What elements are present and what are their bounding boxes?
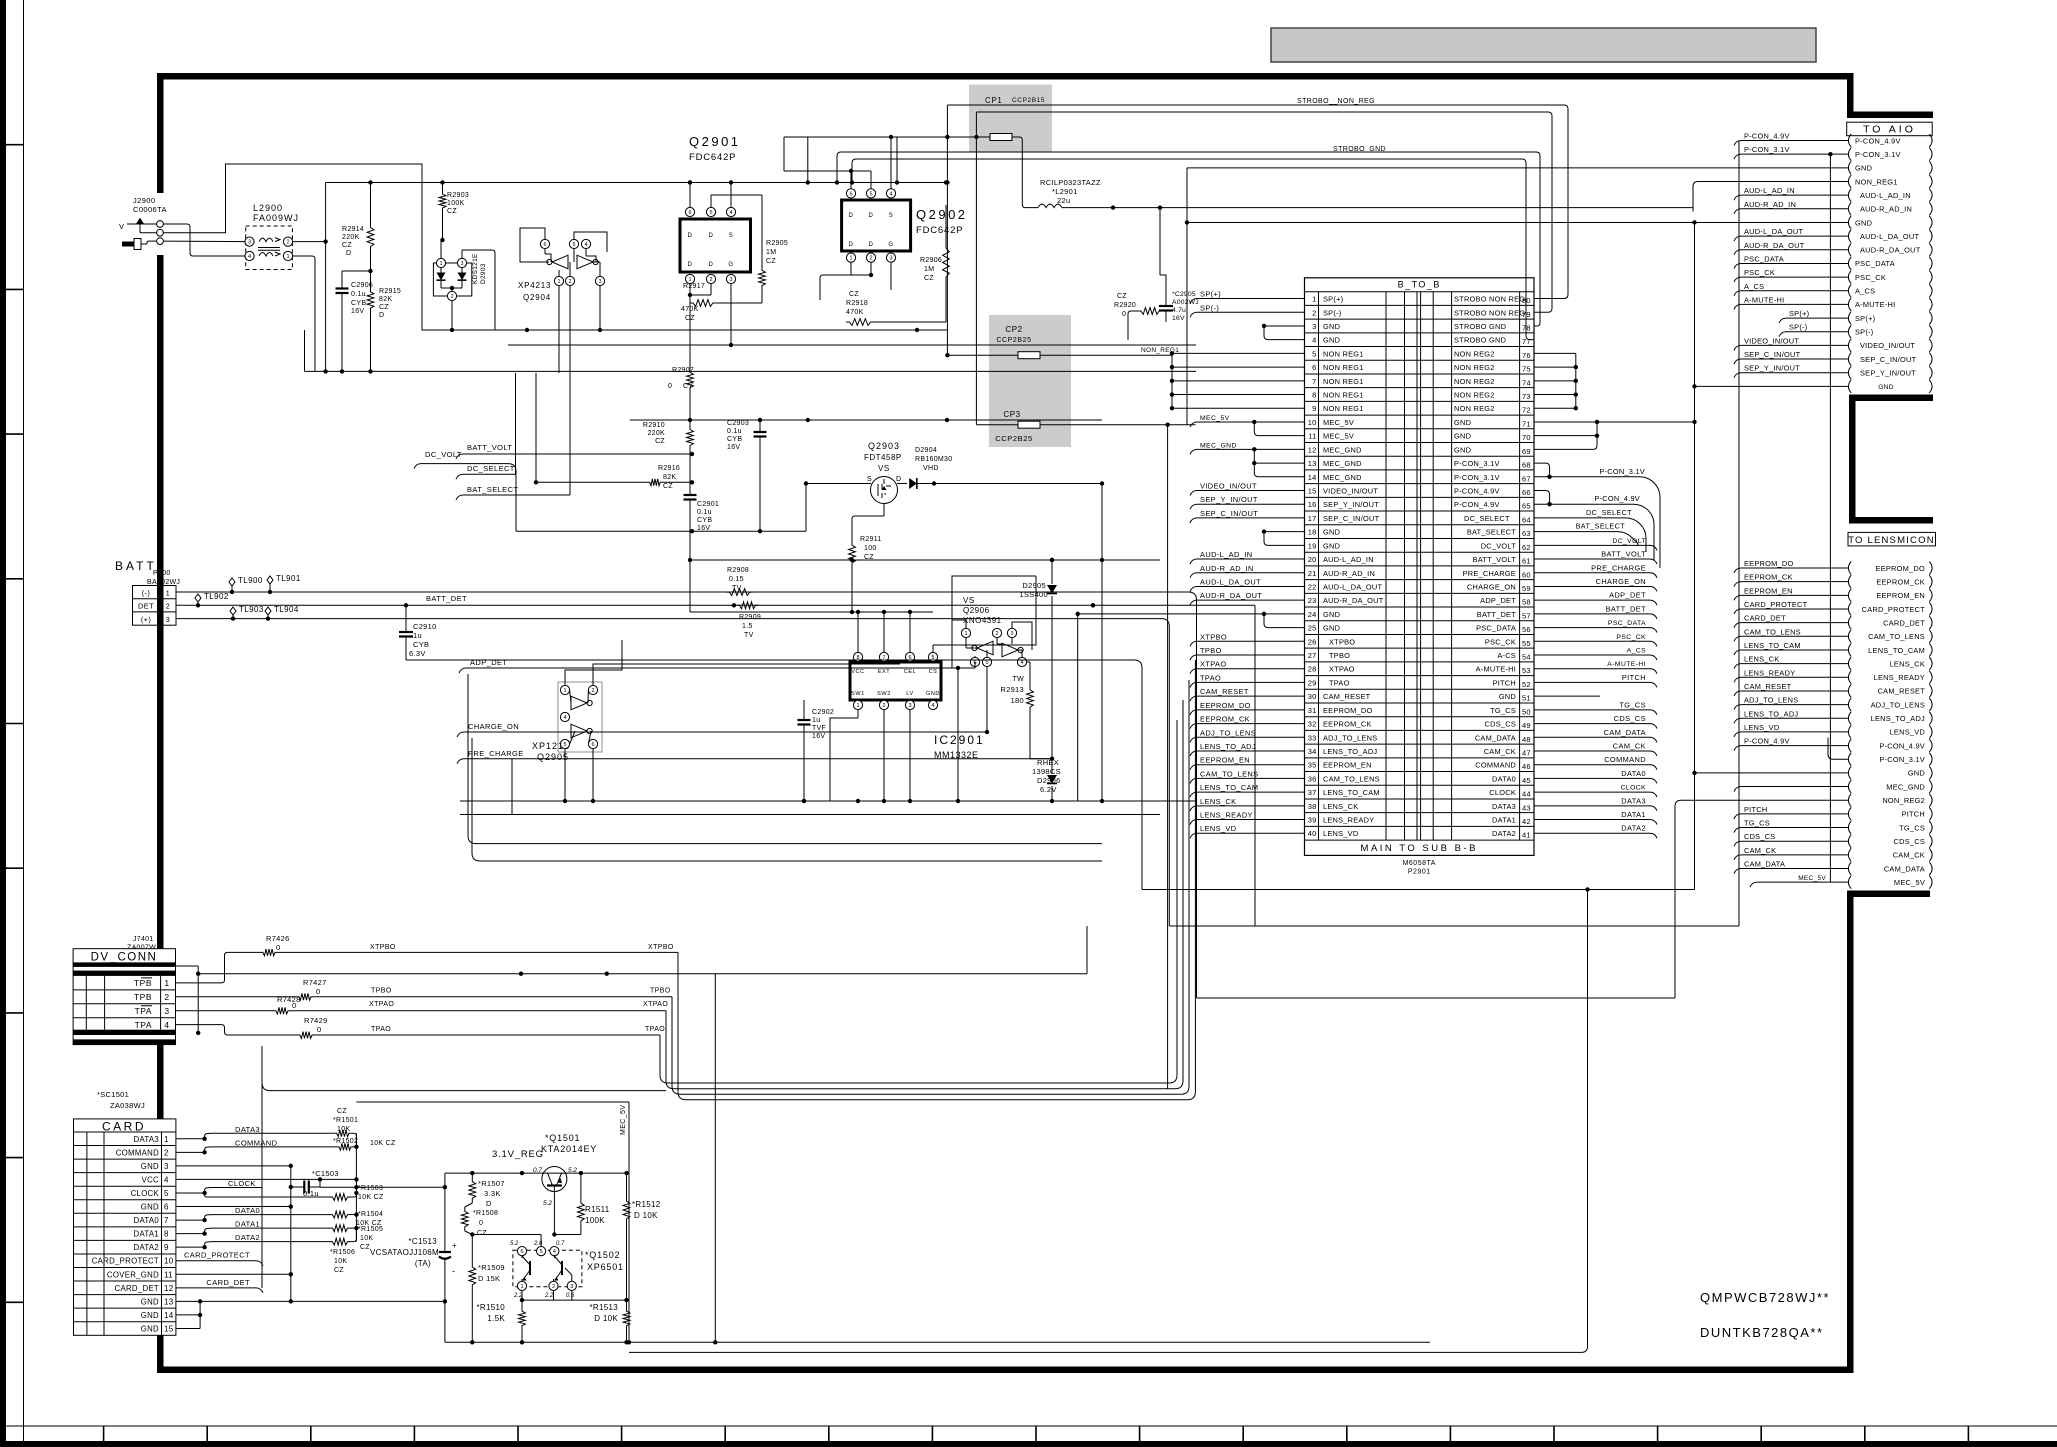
svg-text:A-MUTE-HI: A-MUTE-HI — [1476, 665, 1516, 674]
svg-text:P-CON_3.1V: P-CON_3.1V — [1454, 473, 1500, 482]
wire LENSMICON P-CON_3.1V — [1828, 738, 1848, 760]
wire y420 rail — [630, 419, 1102, 421]
svg-text:DATA3: DATA3 — [235, 1125, 260, 1134]
svg-text:TG_CS: TG_CS — [1744, 819, 1770, 828]
svg-text:D: D — [688, 233, 693, 239]
svg-text:MEC_GND: MEC_GND — [1323, 473, 1362, 482]
svg-text:XP6501: XP6501 — [587, 1262, 624, 1272]
pin TO LENSMICON ADJ_TO_LENS — [1848, 698, 1851, 711]
svg-text:XTPBO: XTPBO — [1200, 632, 1227, 641]
svg-text:53: 53 — [1522, 666, 1531, 675]
svg-text:LENS_TO_ADJ: LENS_TO_ADJ — [1200, 742, 1256, 751]
svg-text:CAM_DATA: CAM_DATA — [1884, 864, 1925, 873]
wire y530 rail — [516, 530, 806, 532]
node ADJ_TO_LENS (pin 33 leader) — [1197, 736, 1305, 738]
svg-text:4: 4 — [729, 210, 732, 216]
svg-text:SW1: SW1 — [851, 691, 865, 697]
svg-text:CAM_RESET: CAM_RESET — [1200, 687, 1249, 696]
svg-text:GND: GND — [1855, 218, 1872, 227]
node EEPROM_CK (LENSMICON leader) — [1741, 581, 1848, 583]
node LENS_CK (LENSMICON leader) — [1741, 663, 1848, 665]
node SEP_Y_IN/OUT (AIO leader) — [1741, 372, 1848, 374]
svg-text:3: 3 — [889, 256, 892, 262]
wire STROBO GND rows 78/77 up — [837, 152, 1540, 326]
svg-text:36: 36 — [1308, 774, 1317, 783]
wire CARD DATA0 — [176, 1219, 205, 1221]
wire J2900 to L2900 — [163, 240, 245, 243]
svg-text:R2905: R2905 — [766, 240, 788, 247]
svg-text:STROBO__NON_REG: STROBO__NON_REG — [1297, 98, 1375, 105]
svg-text:55: 55 — [1522, 639, 1531, 648]
wire MEC_5V riser — [714, 974, 716, 1343]
svg-text:CARD_PROTECT: CARD_PROTECT — [184, 1251, 250, 1260]
wire CARD DATA1 — [176, 1233, 205, 1235]
svg-text:100: 100 — [864, 545, 877, 552]
sheet left border ticks — [0, 144, 24, 146]
svg-text:TL904: TL904 — [274, 605, 299, 614]
pin TO AIO AUD-L_DA_OUT — [1848, 230, 1851, 243]
svg-text:SP(+): SP(+) — [1323, 295, 1343, 304]
svg-text:BATT_DET: BATT_DET — [1477, 610, 1516, 619]
svg-text:33: 33 — [1308, 733, 1317, 742]
svg-text:SP(-): SP(-) — [1200, 303, 1219, 312]
wire DV link verticals — [176, 965, 199, 967]
svg-text:D2904: D2904 — [915, 447, 937, 454]
wire MEC_5V rows 10-11 — [1254, 422, 1304, 436]
connector TO LENSMICON header — [1848, 532, 1936, 546]
svg-text:RB160M30: RB160M30 — [915, 456, 952, 463]
pin TO AIO AUD-L_AD_IN — [1848, 189, 1851, 202]
svg-text:CLOCK: CLOCK — [1489, 788, 1516, 797]
svg-text:KTA2014EY: KTA2014EY — [541, 1144, 597, 1154]
svg-text:GND: GND — [1323, 528, 1340, 537]
wire x1102 drop — [1101, 484, 1103, 561]
resistor R2906 — [943, 240, 950, 285]
svg-text:5: 5 — [1312, 349, 1316, 358]
svg-text:*Q1502: *Q1502 — [585, 1250, 620, 1260]
svg-text:L2900: L2900 — [253, 203, 283, 213]
wire ground rail y371 — [305, 370, 631, 372]
svg-text:DATA0: DATA0 — [1492, 774, 1516, 783]
svg-text:DATA1: DATA1 — [1492, 816, 1516, 825]
svg-text:10K: 10K — [334, 1258, 347, 1265]
svg-text:AUD-L_DA_OUT: AUD-L_DA_OUT — [1860, 232, 1919, 241]
node P-CON_3.1V (AIO leader) — [1741, 153, 1848, 155]
svg-text:61: 61 — [1522, 557, 1531, 566]
svg-text:C2901: C2901 — [697, 501, 719, 508]
node CAM_RESET (LENSMICON leader) — [1741, 690, 1848, 692]
svg-text:COMMAND: COMMAND — [1475, 761, 1516, 770]
svg-text:D: D — [896, 476, 902, 483]
svg-text:AUD-R_AD_IN: AUD-R_AD_IN — [1200, 564, 1254, 573]
wire C1503 line to reg — [320, 1186, 445, 1188]
svg-text:LENS_CK: LENS_CK — [1890, 659, 1925, 668]
test point TL900 — [229, 578, 235, 586]
svg-text:CARD_PROTECT: CARD_PROTECT — [1744, 600, 1808, 609]
svg-text:GND: GND — [141, 1162, 159, 1171]
wire CP1 to L2901 — [1012, 137, 1038, 208]
svg-text:G: G — [888, 242, 893, 248]
svg-text:DATA3: DATA3 — [1492, 802, 1516, 811]
svg-text:R7426: R7426 — [266, 934, 290, 943]
frame left bar — [157, 73, 164, 193]
pin TO AIO SEP_Y_IN/OUT — [1848, 366, 1851, 379]
svg-text:AUD-R_AD_IN: AUD-R_AD_IN — [1860, 205, 1912, 214]
svg-text:1398CS: 1398CS — [1032, 767, 1061, 776]
svg-text:2.6: 2.6 — [533, 1241, 543, 1247]
svg-text:SEP_C_IN/OUT: SEP_C_IN/OUT — [1200, 509, 1258, 518]
svg-text:TPAO: TPAO — [1200, 673, 1221, 682]
svg-text:R2911: R2911 — [860, 536, 882, 543]
svg-text:LENS_READY: LENS_READY — [1874, 673, 1925, 682]
wire GND rows 18-19 — [1264, 531, 1305, 533]
svg-text:AUD-R_AD_IN: AUD-R_AD_IN — [1744, 200, 1796, 209]
svg-text:3: 3 — [598, 279, 601, 285]
svg-text:*C1503: *C1503 — [312, 1169, 339, 1178]
svg-text:S: S — [729, 233, 734, 239]
wire NON REG1 rows 5-9 left bus — [1172, 352, 1305, 354]
sheet bottom border bar — [0, 1441, 2057, 1447]
svg-text:3: 3 — [164, 1006, 169, 1016]
svg-text:SP(+): SP(+) — [1789, 309, 1809, 318]
svg-text:*R1509: *R1509 — [478, 1263, 505, 1272]
svg-text:VCC: VCC — [142, 1175, 159, 1184]
svg-text:CLOCK: CLOCK — [1621, 785, 1646, 792]
svg-text:46: 46 — [1522, 762, 1531, 771]
wire bus y373 extension — [630, 370, 1196, 372]
pin TO LENSMICON LENS_READY — [1848, 671, 1851, 684]
svg-text:LENS_TO_ADJ: LENS_TO_ADJ — [1871, 714, 1925, 723]
node PSC_CK (AIO leader) — [1741, 276, 1848, 278]
svg-text:EEPROM_CK: EEPROM_CK — [1200, 715, 1250, 724]
node COMMAND (pin 46 leader) — [1534, 764, 1650, 766]
svg-text:A-MUTE-HI: A-MUTE-HI — [1855, 300, 1895, 309]
svg-text:0.7: 0.7 — [556, 1241, 565, 1247]
svg-text:3: 3 — [248, 240, 251, 246]
wire AIO GND bottom row — [1695, 385, 1849, 387]
svg-text:VIDEO_IN/OUT: VIDEO_IN/OUT — [1860, 341, 1915, 350]
svg-text:CAM_RESET: CAM_RESET — [1744, 682, 1792, 691]
svg-text:3: 3 — [1010, 631, 1013, 637]
node EEPROM_CK (pin 32 leader) — [1197, 723, 1305, 725]
svg-text:31: 31 — [1308, 706, 1317, 715]
svg-text:P-CON_4.9V: P-CON_4.9V — [1594, 494, 1640, 503]
pin TO AIO SP(+) — [1848, 312, 1851, 325]
wire BATT pin1 — [176, 592, 1197, 998]
svg-text:20: 20 — [1308, 555, 1317, 564]
svg-text:SP(-): SP(-) — [1855, 328, 1874, 337]
wire x897 drop — [896, 137, 898, 183]
svg-text:SEP_C_IN/OUT: SEP_C_IN/OUT — [1323, 514, 1380, 523]
pin TO LENSMICON EEPROM_EN — [1848, 589, 1851, 602]
svg-text:4: 4 — [889, 192, 892, 198]
svg-text:TVF: TVF — [812, 725, 826, 732]
node CARD_DET (LENSMICON leader) — [1741, 622, 1848, 624]
test point TL904 — [265, 607, 271, 615]
svg-text:13: 13 — [164, 1297, 174, 1306]
svg-text:XTPAO: XTPAO — [1200, 660, 1227, 669]
wire Q2902 top pins — [850, 171, 852, 189]
svg-text:37: 37 — [1308, 788, 1317, 797]
svg-text:CHARGE_ON: CHARGE_ON — [468, 722, 519, 731]
svg-text:PRE_CHARGE: PRE_CHARGE — [1463, 569, 1516, 578]
svg-text:XTPAO: XTPAO — [1329, 665, 1355, 674]
svg-text:CZ: CZ — [334, 1267, 344, 1274]
wire wrap y926 — [1169, 925, 1739, 927]
wire XP4213 pin stubs down — [558, 286, 560, 373]
svg-text:6: 6 — [520, 1249, 523, 1255]
node P-CON_4.9V (AIO leader) — [1741, 140, 1848, 142]
svg-text:MEC_5V: MEC_5V — [620, 1105, 627, 1135]
svg-text:R7428: R7428 — [277, 995, 301, 1004]
svg-text:CZ: CZ — [337, 1108, 347, 1115]
svg-text:XTPBO: XTPBO — [1329, 637, 1355, 646]
svg-text:PSC_DATA: PSC_DATA — [1608, 620, 1646, 627]
svg-text:4: 4 — [553, 1249, 556, 1255]
node DC_VOLT (pin 62 leader) — [1534, 544, 1650, 546]
svg-text:GND: GND — [1323, 624, 1340, 633]
svg-text:D2903: D2903 — [480, 263, 487, 284]
svg-text:1: 1 — [166, 589, 171, 598]
svg-text:S: S — [889, 213, 894, 219]
svg-text:EEPROM_EN: EEPROM_EN — [1200, 756, 1250, 765]
pin TO LENSMICON TG_CS — [1848, 821, 1851, 834]
node PITCH (LENSMICON leader) — [1741, 813, 1848, 815]
wire IC2901 top pins — [857, 612, 859, 652]
svg-text:73: 73 — [1522, 392, 1531, 401]
svg-text:68: 68 — [1522, 461, 1531, 470]
wire LENSMICON NON_REG2 row — [1675, 800, 1848, 998]
svg-text:1SS400: 1SS400 — [1020, 590, 1049, 599]
svg-text:CHARGE_ON: CHARGE_ON — [1467, 582, 1516, 591]
svg-text:CZ: CZ — [663, 483, 673, 490]
svg-text:2: 2 — [166, 602, 171, 611]
test point TL903 — [230, 607, 236, 615]
svg-text:56: 56 — [1522, 625, 1531, 634]
frame top bar — [157, 73, 1854, 80]
svg-text:Q2901: Q2901 — [689, 134, 741, 149]
node CARD_DET — [176, 1287, 256, 1289]
wire DV pin2 TPBO — [176, 996, 298, 998]
svg-text:NON REG2: NON REG2 — [1454, 363, 1495, 372]
svg-text:Q2903: Q2903 — [868, 441, 900, 451]
svg-text:DUNTKB728QA**: DUNTKB728QA** — [1700, 1325, 1824, 1340]
svg-text:*R1507: *R1507 — [478, 1179, 505, 1188]
pin TO AIO VIDEO_IN/OUT — [1848, 339, 1851, 352]
svg-text:STROBO GND: STROBO GND — [1454, 336, 1506, 345]
svg-text:6: 6 — [1312, 363, 1316, 372]
svg-text:CZ: CZ — [924, 275, 934, 282]
svg-text:LENS_CK: LENS_CK — [1744, 655, 1779, 664]
svg-text:1: 1 — [856, 703, 859, 709]
svg-text:CCP2B15: CCP2B15 — [1012, 97, 1045, 104]
svg-text:1u: 1u — [812, 717, 820, 724]
svg-text:65: 65 — [1522, 502, 1531, 511]
wire P-CON_3.1V rows 68/67 — [1534, 463, 1550, 477]
svg-text:PSC_CK: PSC_CK — [1485, 637, 1516, 646]
svg-text:EEPROM_EN: EEPROM_EN — [1323, 761, 1372, 770]
svg-text:EEPROM_CK: EEPROM_CK — [1876, 577, 1925, 586]
svg-text:DATA2: DATA2 — [1492, 829, 1516, 838]
svg-text:A_CS: A_CS — [1627, 648, 1646, 655]
pin TO LENSMICON MEC_5V — [1848, 876, 1851, 889]
svg-text:0: 0 — [316, 987, 320, 996]
svg-text:CAM_CK: CAM_CK — [1893, 851, 1925, 860]
svg-text:9: 9 — [1312, 404, 1316, 413]
node LENS_TO_ADJ (pin 34 leader) — [1197, 750, 1305, 752]
svg-text:EEPROM_CK: EEPROM_CK — [1744, 573, 1793, 582]
pin TO LENSMICON GND — [1848, 766, 1851, 779]
svg-text:DC_VOLT: DC_VOLT — [1481, 541, 1517, 550]
svg-text:CZ: CZ — [342, 242, 352, 249]
svg-text:R2915: R2915 — [379, 288, 401, 295]
svg-text:MEC_5V: MEC_5V — [1200, 415, 1230, 422]
svg-text:57: 57 — [1522, 611, 1531, 620]
svg-text:R7427: R7427 — [303, 978, 327, 987]
svg-text:CYB: CYB — [351, 300, 366, 307]
wire vertical x1739 — [1738, 141, 1740, 927]
svg-text:22: 22 — [1308, 582, 1317, 591]
node AUD-L_DA_OUT (AIO leader) — [1741, 235, 1848, 237]
node CAM_CK (pin 47 leader) — [1534, 750, 1650, 752]
svg-text:CAM_TO_LENS: CAM_TO_LENS — [1868, 632, 1925, 641]
svg-text:BAT_SELECT: BAT_SELECT — [1576, 522, 1626, 531]
svg-text:5: 5 — [985, 660, 988, 666]
node SEP_C_IN/OUT (AIO leader) — [1741, 358, 1848, 360]
svg-text:58: 58 — [1522, 598, 1531, 607]
svg-text:ADP_DET: ADP_DET — [1480, 596, 1516, 605]
svg-text:2: 2 — [591, 688, 594, 694]
test point TL901 — [267, 576, 273, 584]
svg-text:NON REG1: NON REG1 — [1323, 391, 1364, 400]
svg-text:10: 10 — [1308, 418, 1317, 427]
svg-text:COMMAND: COMMAND — [235, 1138, 278, 1147]
node P-CON_4.9V (LENSMICON leader) — [1741, 745, 1848, 747]
svg-text:STROBO NON REG: STROBO NON REG — [1454, 308, 1525, 317]
svg-text:TG_CS: TG_CS — [1490, 706, 1516, 715]
svg-text:CARD: CARD — [102, 1120, 146, 1134]
svg-text:TPAO: TPAO — [371, 1026, 391, 1033]
wire GND vertical 1694.5 — [1694, 222, 1696, 889]
pin TO AIO AUD-R_AD_IN — [1848, 202, 1851, 215]
wire LENSMICON GND row — [1695, 772, 1849, 774]
resistor CP3 internal — [1018, 421, 1040, 428]
svg-text:0.15: 0.15 — [729, 576, 744, 583]
resistor CP1 internal — [990, 134, 1012, 141]
svg-text:11: 11 — [1308, 432, 1316, 441]
svg-text:P-CON_4.9V: P-CON_4.9V — [1744, 132, 1790, 141]
svg-text:MAIN TO SUB B-B: MAIN TO SUB B-B — [1361, 843, 1478, 854]
wire Q2901 bottom pins — [689, 284, 691, 295]
svg-text:52: 52 — [1522, 680, 1531, 689]
svg-text:SP(+): SP(+) — [1200, 290, 1221, 299]
svg-text:100K: 100K — [447, 200, 465, 207]
svg-text:BATT_DET: BATT_DET — [426, 594, 467, 603]
svg-text:BATT_VOLT: BATT_VOLT — [467, 443, 512, 452]
svg-text:MEC_5V: MEC_5V — [1894, 878, 1925, 887]
svg-text:21: 21 — [1308, 569, 1317, 578]
svg-text:D: D — [346, 250, 351, 257]
svg-text:1: 1 — [563, 688, 566, 694]
svg-text:1: 1 — [849, 256, 852, 262]
node CARD_PROTECT (LENSMICON leader) — [1741, 608, 1848, 610]
svg-text:P-CON_3.1V: P-CON_3.1V — [1599, 467, 1645, 476]
svg-text:CZ: CZ — [1117, 293, 1127, 300]
wire BATT pin3 — [176, 619, 1169, 926]
node CARD_PROTECT — [176, 1260, 256, 1262]
svg-text:5: 5 — [869, 192, 872, 198]
svg-text:CAM_TO_LENS: CAM_TO_LENS — [1323, 774, 1380, 783]
svg-text:R2913: R2913 — [1000, 685, 1024, 694]
node LENS_TO_ADJ (LENSMICON leader) — [1741, 717, 1848, 719]
node PRE_CHARGE (pin 60 leader) — [1534, 572, 1650, 574]
svg-text:18: 18 — [1308, 528, 1317, 537]
svg-text:C0006TA: C0006TA — [133, 205, 167, 214]
node AUD-R_AD_IN (AIO leader) — [1741, 208, 1848, 210]
svg-text:A002WJ: A002WJ — [1172, 299, 1199, 306]
svg-text:2: 2 — [164, 1148, 169, 1157]
node PSC_DATA (pin 56 leader) — [1534, 627, 1650, 629]
wire DV pin1 TPB- — [176, 952, 262, 983]
svg-text:1: 1 — [557, 279, 560, 285]
svg-text:*Q1501: *Q1501 — [545, 1133, 580, 1143]
svg-text:CZ: CZ — [379, 304, 389, 311]
svg-text:1: 1 — [439, 261, 442, 267]
wire P-CON_3.1V vertical 1830 — [1829, 154, 1831, 882]
svg-text:SP(+): SP(+) — [1855, 314, 1875, 323]
svg-text:CHARGE_ON: CHARGE_ON — [1596, 577, 1646, 586]
svg-text:ADP_DET: ADP_DET — [1609, 591, 1646, 600]
svg-text:50: 50 — [1522, 707, 1531, 716]
svg-text:220K: 220K — [647, 430, 665, 437]
svg-text:8: 8 — [1312, 391, 1316, 400]
svg-text:6: 6 — [591, 742, 594, 748]
svg-text:54: 54 — [1522, 653, 1531, 662]
svg-text:CCP2B25: CCP2B25 — [995, 434, 1033, 443]
connector table P2901 B_TO_B outline — [1305, 278, 1535, 856]
svg-text:TL902: TL902 — [204, 592, 229, 601]
wire y345 rail — [508, 344, 1196, 346]
svg-text:SEP_Y_IN/OUT: SEP_Y_IN/OUT — [1860, 369, 1916, 378]
svg-text:CAM_RESET: CAM_RESET — [1878, 687, 1926, 696]
node AUD-L_DA_OUT (pin 22 leader) — [1197, 585, 1305, 587]
svg-text:SEP_C_IN/OUT: SEP_C_IN/OUT — [1744, 350, 1801, 359]
wire CARD VCC — [176, 1178, 357, 1180]
svg-text:LENS_VD: LENS_VD — [1744, 723, 1779, 732]
svg-text:82K: 82K — [379, 296, 392, 303]
svg-text:TG_CS: TG_CS — [1619, 700, 1646, 709]
svg-text:16: 16 — [1308, 500, 1317, 509]
svg-text:*R1510: *R1510 — [477, 1303, 506, 1312]
svg-text:D: D — [709, 262, 714, 268]
svg-text:CAM_DATA: CAM_DATA — [1604, 728, 1646, 737]
wire lower-right loop — [629, 890, 1588, 1353]
wire NON REG2 rows 76-72 bus — [1534, 352, 1576, 354]
wire Q2906 stubs — [957, 668, 959, 801]
svg-text:16V: 16V — [351, 308, 364, 315]
svg-text:CP2: CP2 — [1005, 325, 1022, 334]
pin TO LENSMICON CDS_CS — [1848, 835, 1851, 848]
svg-text:24: 24 — [1308, 610, 1317, 619]
wire CARD DATA3 — [176, 1138, 205, 1140]
node BAT_SELECT right leader — [1534, 532, 1638, 546]
wire R1508 to Q1502 pins — [472, 1234, 541, 1236]
svg-text:5.2: 5.2 — [543, 1200, 552, 1207]
svg-text:29: 29 — [1308, 678, 1317, 687]
node CLOCK (pin 44 leader) — [1534, 791, 1650, 793]
wire riser x947 CP2 — [946, 105, 948, 355]
svg-text:LENS_VD: LENS_VD — [1890, 728, 1925, 737]
